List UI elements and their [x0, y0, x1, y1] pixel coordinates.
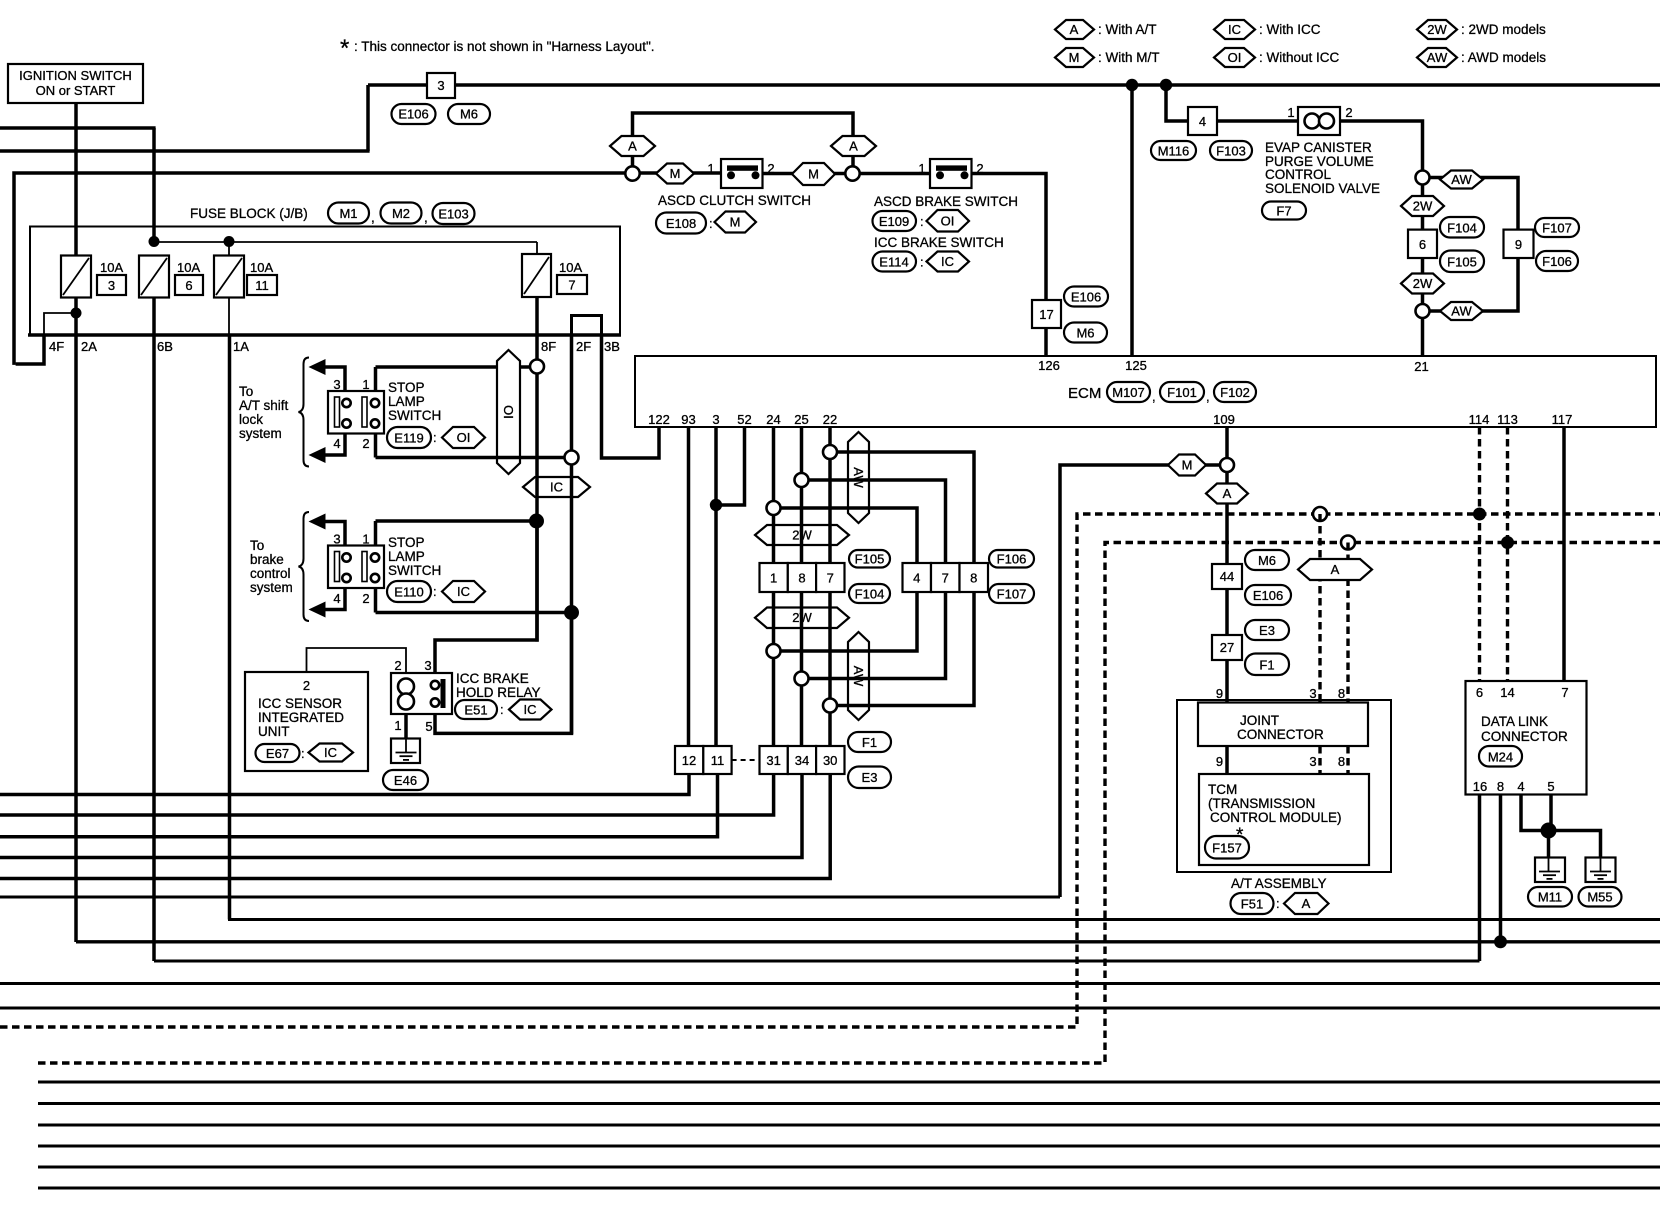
ICC sensor integrated unit box [245, 672, 368, 771]
connector oval M6 (top) [448, 104, 490, 124]
junction dot 8F / stop lamp 2 pin 1 [529, 514, 544, 529]
svg-text:ASCD BRAKE SWITCH: ASCD BRAKE SWITCH [874, 194, 1018, 209]
wire: stop lamp switch 2 pin1 to 8F junction [376, 519, 537, 523]
bus wire F y=1008 [0, 1007, 1660, 1010]
svg-text:8: 8 [1338, 754, 1345, 769]
junction circle right of clutch switch [845, 166, 859, 180]
wire: feed stub to fuse 11 [228, 242, 230, 256]
brace for A/T shift lock group [299, 358, 310, 467]
hexagon IC (E51) [509, 700, 552, 720]
svg-text:system: system [250, 580, 293, 595]
fuse block inner feed line y=242 [154, 241, 537, 243]
svg-text::: : [709, 216, 713, 231]
hexagon IC (E67) [309, 744, 354, 762]
label: STOP LAMP SWITCH (E110) [388, 535, 441, 578]
svg-text:OI: OI [501, 405, 516, 419]
junction circle dashed bus 2 / joint connector 8 [1341, 536, 1355, 550]
fuse 10A 3 (slash symbol) [61, 256, 126, 298]
wire: fuse 11 output (thin) [228, 297, 230, 335]
legend hexagon OI : Without ICC [1214, 48, 1340, 67]
legend hexagon 2W : 2WD models [1417, 20, 1546, 39]
junction circle 8F / stop lamp 1 pin 1 [530, 360, 544, 374]
connector oval E103 [433, 203, 475, 224]
hexagon A (109 branch) [1206, 484, 1248, 504]
wire: junction to ground M55 [1549, 831, 1601, 859]
svg-text::: : [920, 255, 924, 270]
svg-text:3: 3 [437, 78, 444, 93]
wire: ECM pin 24 to box 31 [772, 427, 776, 746]
svg-text:3: 3 [424, 658, 431, 673]
wire: solenoid pin 2 down to ECM pin 21 [1340, 121, 1423, 356]
arrow to brake control (bottom) [309, 602, 326, 618]
svg-text:brake: brake [250, 552, 284, 567]
ground symbol E46 [391, 739, 420, 764]
wire: branch to 4F pin [44, 313, 76, 335]
connector oval E67 [256, 744, 305, 762]
joint connector pin labels 9 3 8 (bottom) [1216, 754, 1345, 769]
svg-text:To: To [239, 384, 253, 399]
svg-text:44: 44 [1220, 569, 1234, 584]
svg-text:M1: M1 [339, 206, 357, 221]
svg-text:ECM: ECM [1068, 385, 1101, 402]
wire: ECM pin 113 dashed to DLC 14 [1506, 427, 1509, 681]
junction dot fuse 11 feed [224, 236, 235, 247]
wire: box 34 output to left edge [0, 774, 802, 858]
svg-text:1: 1 [362, 532, 369, 547]
svg-text:3: 3 [333, 532, 340, 547]
svg-text:3: 3 [1309, 686, 1316, 701]
2F pass-through connector box on fuse block edge [572, 316, 602, 336]
wire: AWD bypass upper (EVAP) [1429, 178, 1518, 230]
bus wire L y=1188 [38, 1187, 1660, 1190]
connector oval E106 (pin 126) [1064, 287, 1108, 307]
wire: ICC sensor pin 2 to relay coil [307, 648, 407, 673]
svg-text:: 2WD models: : 2WD models [1461, 22, 1546, 37]
stop lamp switch 1 pin labels 3 1 4 2 [333, 377, 369, 451]
svg-text:E103: E103 [438, 207, 468, 222]
connector box 27 [1212, 635, 1242, 660]
svg-text:F107: F107 [997, 587, 1027, 602]
connector row: box 30 [816, 746, 844, 774]
svg-text:27: 27 [1220, 640, 1234, 655]
wire: ignition switch to fuse 3 [74, 103, 78, 256]
wire: ECM pin 114 dashed to DLC 6 [1478, 427, 1481, 681]
svg-text:E67: E67 [266, 746, 289, 761]
svg-text:*: * [340, 35, 349, 62]
svg-text::: : [500, 702, 504, 717]
wire: 3B column [602, 335, 660, 458]
svg-text:: AWD models: : AWD models [1461, 50, 1546, 65]
note: star connector not shown in Harness Layout [340, 35, 655, 62]
dashed link between box 11 and box 31 [732, 759, 760, 761]
svg-text:1A: 1A [233, 339, 249, 354]
svg-text:1: 1 [362, 377, 369, 392]
svg-text:1: 1 [770, 571, 777, 586]
bus wire H y=1103.5 [38, 1102, 1660, 1105]
svg-text:93: 93 [681, 412, 695, 427]
arrow to A/T shift lock (bottom) [309, 447, 326, 463]
connector box 17 on pin 126 wire [1032, 300, 1061, 328]
junction dot EVAP feed at x=1132 [1126, 79, 1138, 91]
bus wire E y=983.5 [0, 982, 1660, 985]
OI vertical banner (without ICC path) [497, 350, 520, 474]
wire: stop lamp switch 2 pin2 drop [374, 588, 378, 613]
svg-text:M2: M2 [392, 206, 410, 221]
svg-text:9: 9 [1515, 237, 1522, 252]
svg-text:A: A [1070, 22, 1079, 37]
wire: stop lamp switch 1 pin2 to 2F junction [376, 456, 572, 460]
svg-text:EVAP CANISTER: EVAP CANISTER [1265, 140, 1372, 155]
svg-text::: : [433, 584, 437, 599]
svg-text:STOP: STOP [388, 535, 425, 550]
wire: A/T bypass over clutch switch [633, 113, 854, 172]
svg-text:system: system [239, 426, 282, 441]
legend hexagon IC : With ICC [1214, 20, 1321, 39]
svg-text:AW: AW [851, 666, 866, 687]
stop lamp switch 2 pin labels 3 1 4 2 [333, 532, 369, 607]
junction dot pin 52 / pin 3 [710, 499, 722, 511]
svg-text:4F: 4F [49, 339, 64, 354]
svg-text:E108: E108 [666, 216, 696, 231]
wire: stop lamp switch 2 pin3 arrow lead [324, 522, 345, 546]
svg-text:2: 2 [394, 658, 401, 673]
ground symbol M11 [1535, 858, 1565, 883]
connector oval E3 (27) [1245, 620, 1289, 640]
wire: ECM pin 93 to box 12 [687, 427, 691, 746]
svg-text:A: A [628, 139, 637, 154]
hexagon A (bypass left) [610, 136, 655, 156]
svg-text:M24: M24 [1488, 750, 1513, 765]
svg-text:17: 17 [1039, 307, 1053, 322]
svg-text:M116: M116 [1158, 144, 1190, 159]
svg-text:6: 6 [185, 278, 192, 293]
svg-text:F1: F1 [1259, 658, 1274, 673]
svg-text:F104: F104 [1447, 221, 1477, 236]
svg-text:FUSE BLOCK (J/B): FUSE BLOCK (J/B) [190, 206, 308, 221]
svg-text:AW: AW [851, 467, 866, 488]
svg-text:2A: 2A [81, 339, 97, 354]
connector oval M1 [328, 203, 375, 226]
svg-text:31: 31 [766, 753, 780, 768]
svg-text:2W: 2W [1413, 199, 1433, 214]
svg-text:A: A [849, 139, 858, 154]
svg-text:E3: E3 [862, 770, 878, 785]
wire: vertical x=154 feed into fuse block [152, 128, 156, 242]
svg-text:To: To [250, 538, 264, 553]
svg-text:UNIT: UNIT [258, 724, 290, 739]
connector oval E46 [383, 770, 428, 790]
svg-text:E106: E106 [1253, 588, 1283, 603]
ground symbol M55 [1586, 858, 1616, 883]
svg-text:8: 8 [1497, 779, 1504, 794]
svg-text:DATA LINK: DATA LINK [1481, 714, 1548, 729]
ASCD clutch switch (E108) [707, 159, 774, 188]
junction circle left of clutch switch [625, 166, 639, 180]
wire: AWD bypass pin 22 upper [830, 452, 974, 563]
connector boxes 1 8 7 (F104/F105) [760, 563, 845, 592]
connector oval F103 [1210, 141, 1252, 160]
bus wire G y=1082 [38, 1081, 1660, 1084]
stop lamp switch 1 left contact [335, 397, 351, 428]
junction circle EVAP upper [1416, 171, 1430, 185]
wire: 2F column [570, 335, 574, 734]
svg-text:F105: F105 [855, 552, 885, 567]
wire: 4F jog to ASCD feed [16, 335, 44, 364]
svg-text:M: M [1182, 458, 1193, 473]
svg-text:CONTROL MODULE): CONTROL MODULE) [1210, 810, 1342, 825]
svg-text:7: 7 [568, 278, 575, 293]
svg-text:CONNECTOR: CONNECTOR [1237, 727, 1324, 742]
svg-text:M55: M55 [1587, 890, 1612, 905]
svg-text:F106: F106 [1542, 254, 1572, 269]
junction dot EVAP feed at x=1166 [1160, 79, 1172, 91]
hexagon A wide (TCM drops) [1298, 559, 1372, 580]
svg-text:M11: M11 [1538, 890, 1562, 905]
wire: stop lamp switch 1 pin1 drop [374, 367, 378, 391]
brace for brake control group [299, 512, 310, 621]
connector box 4 (EVAP) [1188, 107, 1217, 135]
svg-text:INTEGRATED: INTEGRATED [258, 710, 344, 725]
svg-text:52: 52 [737, 412, 751, 427]
legend hexagon A : With A/T [1055, 20, 1157, 39]
svg-text:7: 7 [1561, 685, 1568, 700]
fuse 10A 7 [522, 254, 587, 297]
svg-text:LAMP: LAMP [388, 394, 425, 409]
hexagon M (E108) [715, 212, 757, 233]
connector oval M24 [1479, 746, 1522, 767]
wire: feed to EVAP connector 4 [1166, 85, 1188, 121]
svg-text:4: 4 [1199, 114, 1206, 129]
svg-text:A: A [1302, 896, 1311, 911]
svg-text:10A: 10A [559, 260, 582, 275]
wire: ASCD feed line y=173 left portion [14, 173, 721, 365]
svg-text:OI: OI [457, 430, 471, 445]
svg-text:M6: M6 [1076, 326, 1094, 341]
connector oval E119 [387, 427, 437, 448]
stop lamp switch 2 right contact [362, 552, 379, 583]
svg-text:IC: IC [550, 480, 563, 495]
wire: ECM pin 3 to box 11 [714, 427, 718, 746]
bus wire A (M/T branch) y=897 [0, 896, 1060, 899]
wire: stop lamp switch 1 pin1 to 8F junction [376, 365, 538, 369]
svg-text:11: 11 [711, 753, 725, 768]
bus wire B (1A) y=919.5 [230, 918, 1660, 922]
junction circle pin 22 lower [823, 699, 837, 713]
connector row: box 34 [788, 746, 816, 774]
svg-text:1: 1 [1287, 105, 1294, 120]
svg-text:4: 4 [913, 571, 920, 586]
svg-text:,: , [1152, 389, 1156, 404]
hexagon M (clutch switch left) [656, 164, 694, 184]
svg-text:IC: IC [524, 702, 537, 717]
fuse 10A 6 [139, 256, 203, 298]
svg-text:122: 122 [648, 412, 670, 427]
label: ICC BRAKE HOLD RELAY [456, 671, 541, 700]
svg-text::: : [433, 430, 437, 445]
arrow to A/T shift lock (top) [309, 359, 326, 375]
svg-text:3B: 3B [604, 339, 620, 354]
svg-text:E119: E119 [394, 431, 423, 446]
junction dot dashed bus 1 / ECM 114 [1473, 508, 1486, 521]
wire: fuse 6 output 6B column [152, 297, 156, 961]
wire: relay pin 1 to ground [404, 714, 408, 740]
A/T assembly outer box [1177, 700, 1391, 872]
svg-text:ON or START: ON or START [36, 83, 116, 98]
connector oval E51 [455, 700, 504, 719]
svg-text:HOLD RELAY: HOLD RELAY [456, 685, 541, 700]
svg-text:SOLENOID VALVE: SOLENOID VALVE [1265, 181, 1380, 196]
stop lamp switch 2 left contact [335, 552, 351, 583]
svg-text:ICC BRAKE: ICC BRAKE [456, 671, 529, 686]
label: ECM with connector ovals M107 F101 F102 [1068, 382, 1256, 404]
svg-text:2: 2 [1345, 105, 1352, 120]
connector oval E109 [873, 211, 924, 231]
svg-text:SWITCH: SWITCH [388, 408, 441, 423]
connector oval F7 [1262, 202, 1306, 220]
wire: dashed joint connector to TCM pin 8 [1346, 746, 1349, 774]
wire: feed stub to fuse 7 [536, 242, 538, 255]
junction circle dashed bus 1 / joint connector 3 [1313, 507, 1327, 521]
wire: connector 4 to solenoid coil [1217, 119, 1298, 123]
wire: dashed drop joint connector pin 8 [1346, 543, 1349, 703]
svg-text:21: 21 [1414, 359, 1428, 374]
junction dot fuse 6 feed [149, 236, 160, 247]
svg-text:,: , [1206, 389, 1210, 404]
stop lamp switch 2 (E110) box [328, 546, 384, 589]
wire: DLC pin 16 to bus [1478, 795, 1482, 962]
svg-text:9: 9 [1216, 754, 1223, 769]
connector oval F104 [849, 584, 890, 603]
svg-text::: : [301, 746, 305, 761]
wire: DLC pin 8 to bus [1499, 795, 1503, 943]
svg-text:2: 2 [976, 161, 983, 176]
TCM box [1199, 774, 1369, 865]
junction circle pin 25 lower [795, 672, 809, 686]
connector row: box 31 [760, 746, 788, 774]
junction circle pin 109 [1220, 458, 1234, 472]
svg-text:IC: IC [457, 584, 470, 599]
connector box 3 on top feed line [427, 73, 455, 98]
svg-text:2W: 2W [1413, 276, 1433, 291]
svg-text:: This connector is not shown: : This connector is not shown in "Harnes… [354, 39, 655, 54]
svg-text:STOP: STOP [388, 380, 425, 395]
wire: fuse 3 output to 2A [74, 297, 78, 942]
wire: ECM pin 52 joins pin 3 wire [716, 427, 745, 505]
svg-text:3: 3 [1309, 754, 1316, 769]
svg-text:109: 109 [1213, 412, 1235, 427]
connector oval E108 [656, 213, 713, 234]
svg-text::: : [1276, 896, 1280, 911]
wire: DLC pin 4 to ground junction [1521, 795, 1549, 831]
svg-text:6B: 6B [157, 339, 173, 354]
junction dot below fuse 3 [71, 308, 82, 319]
wire: AWD bypass pin 24 lower [774, 592, 918, 651]
connector oval F157 [1205, 836, 1249, 859]
AW vertical banner (lower) [848, 632, 869, 720]
svg-text:10A: 10A [177, 260, 200, 275]
relay coil symbol [398, 679, 414, 710]
fuse block outline [30, 227, 620, 336]
legend hexagon AW : AWD models [1417, 48, 1546, 67]
bus wire I y=1125 [38, 1124, 1660, 1127]
svg-text:126: 126 [1038, 358, 1060, 373]
svg-text:6: 6 [1476, 685, 1483, 700]
connector oval E106 (top) [392, 104, 436, 124]
svg-text:OI: OI [1228, 50, 1242, 65]
arrow to brake control (top) [309, 514, 326, 530]
EVAP solenoid coil [1287, 105, 1352, 135]
connector row: box 11 [703, 746, 731, 774]
wire: box 11 output to left edge [0, 774, 718, 837]
junction circle pin 24 lower [767, 644, 781, 658]
wire: box 30 output to left edge [0, 774, 830, 879]
wire: AWD bypass pin 25 lower [802, 592, 946, 679]
svg-text:5: 5 [1547, 779, 1554, 794]
connector oval F51 [1231, 893, 1280, 914]
svg-text:M: M [730, 215, 741, 230]
svg-text:114: 114 [1469, 412, 1490, 427]
ASCD brake switch (E109) / ICC brake switch (E114) [918, 159, 983, 188]
stop lamp switch 1 right contact [362, 397, 379, 428]
svg-text:A/T ASSEMBLY: A/T ASSEMBLY [1231, 876, 1327, 891]
junction circle pin 22 upper [823, 445, 837, 459]
svg-text:8: 8 [970, 571, 977, 586]
svg-text:IC: IC [1228, 22, 1241, 37]
svg-text:2: 2 [362, 591, 369, 606]
wire: ECM pin 125 riser [1130, 85, 1134, 356]
wire: 1A column [228, 335, 232, 920]
junction circle 2F / stop lamp 1 pin 2 [565, 451, 579, 465]
junction circle pin 24 upper [767, 501, 781, 515]
connector oval M2 [381, 203, 428, 226]
svg-text:2: 2 [767, 161, 774, 176]
legend hexagon M : With M/T [1055, 48, 1160, 67]
stop lamp switch 1 (E119) box [328, 391, 384, 434]
wire: ASCD switch line continuation to brake switch [763, 172, 931, 176]
svg-text:F102: F102 [1220, 385, 1250, 400]
relay pin labels 2 3 1 5 [394, 658, 432, 734]
connector oval F106 (EVAP) [1536, 251, 1578, 271]
svg-text:34: 34 [795, 753, 809, 768]
connector oval E3 (row) [848, 767, 891, 789]
svg-text::: : [920, 214, 924, 229]
svg-text:F106: F106 [997, 552, 1027, 567]
bus wire K y=1167 [38, 1166, 1660, 1169]
svg-text:ASCD CLUTCH SWITCH: ASCD CLUTCH SWITCH [658, 193, 811, 208]
wire: stop lamp switch 1 pin4 arrow lead [324, 434, 345, 456]
svg-text:8: 8 [798, 571, 805, 586]
connector oval F106 [989, 550, 1034, 568]
hexagon AW (EVAP upper) [1440, 171, 1483, 189]
hexagon OI (E109) [927, 210, 970, 232]
wire: box 12 output to left edge [0, 774, 689, 795]
bus wire D (6B to DLC 16) y=961 [154, 960, 1480, 963]
2W banner upper [755, 525, 849, 545]
ICC brake hold relay box [391, 673, 452, 714]
svg-text:M: M [1069, 50, 1080, 65]
connector oval F1 (27) [1245, 654, 1289, 676]
connector boxes 4 7 8 (F106/F107) [903, 563, 989, 592]
svg-text:AW: AW [1451, 304, 1472, 319]
wire: stop lamp switch 1 pin2 drop [374, 434, 378, 458]
wire: DLC pin 5 to ground junction [1549, 795, 1553, 831]
svg-text:8: 8 [1338, 686, 1345, 701]
svg-text:F7: F7 [1276, 204, 1291, 219]
svg-text:25: 25 [794, 412, 808, 427]
svg-text:1: 1 [707, 161, 714, 176]
connector box 44 [1212, 564, 1242, 589]
svg-text:3: 3 [333, 377, 340, 392]
